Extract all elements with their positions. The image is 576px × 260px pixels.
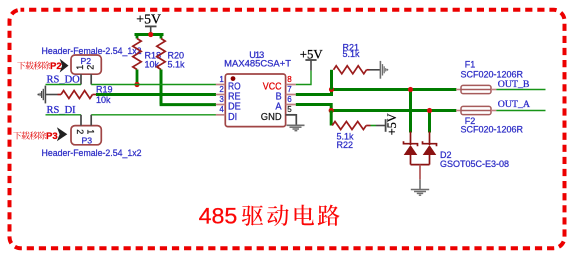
- svg-text:GSOT05C-E3-08: GSOT05C-E3-08: [440, 159, 509, 169]
- svg-text:5: 5: [287, 105, 292, 114]
- U13 pin 3 (DE): [216, 95, 241, 113]
- resistor R20 5.1k: [157, 35, 165, 105]
- IC U13 body: [225, 74, 285, 127]
- power +5V (at U13.8): [300, 47, 324, 70]
- wire RS_DI stub: [46, 114, 82, 116]
- wire R20 to DE (pin3): [160, 103, 216, 106]
- wire DI net (P3.1 to U13.4): [91, 114, 216, 116]
- svg-text:SCF020-1206R: SCF020-1206R: [461, 70, 524, 80]
- resistor R18 10k: [133, 35, 141, 85]
- ground (below D2): [411, 180, 429, 196]
- R19 value labels: [96, 85, 113, 106]
- wire RS_DO stub: [46, 84, 82, 86]
- title 485驱动电路 (red): [199, 203, 340, 228]
- junction B/R21: [329, 87, 334, 92]
- R22 value labels: [337, 131, 355, 150]
- svg-text:OUT_B: OUT_B: [498, 79, 530, 90]
- wire B main line to F1: [332, 88, 457, 91]
- svg-text:DI: DI: [228, 112, 237, 123]
- U13 pin 5 (GND): [261, 105, 296, 123]
- junction A/D2: [427, 108, 432, 113]
- power +5V (top, above R18/R20): [136, 11, 161, 34]
- svg-text:8: 8: [287, 75, 292, 84]
- R18 value labels: [145, 51, 162, 70]
- P2 pin 2 lead: [90, 74, 92, 84]
- U13 pin-1 marker dot: [231, 76, 236, 81]
- svg-text:2: 2: [219, 85, 224, 94]
- arrow marker at P3: [57, 127, 67, 141]
- svg-text:5.1k: 5.1k: [168, 60, 186, 70]
- U13 pin 1 (RO): [216, 75, 241, 93]
- svg-text:Header-Female-2.54_1x2: Header-Female-2.54_1x2: [42, 148, 142, 158]
- P2 pin 1 lead: [80, 74, 82, 84]
- svg-text:P3: P3: [46, 131, 58, 142]
- svg-text:GND: GND: [261, 112, 282, 123]
- wire RO net (P2.2 to U13.1): [91, 84, 216, 86]
- resistor R22 5.1k: [331, 111, 370, 130]
- F2 designator labels: [461, 116, 524, 135]
- svg-text:3: 3: [219, 95, 224, 104]
- svg-text:10k: 10k: [96, 95, 111, 105]
- svg-text:P3: P3: [82, 136, 93, 146]
- U13 pin 2 (RE): [216, 85, 241, 103]
- ground (right of R21, rotated): [370, 61, 389, 79]
- wire A to D2 anode-right: [428, 111, 431, 133]
- wire +5V rail to R18/R20 tops: [135, 33, 164, 36]
- P3 pin 1 lead: [90, 115, 92, 126]
- svg-text:+5V: +5V: [300, 47, 324, 61]
- junction R18/RO wire: [134, 82, 139, 87]
- svg-text:1: 1: [86, 129, 96, 134]
- svg-text:SCF020-1206R: SCF020-1206R: [461, 125, 524, 135]
- diode D2 (dual TVS GSOT05C): [404, 132, 437, 180]
- fuse F1 SCF020-1206R: [456, 85, 496, 93]
- R21 value labels: [343, 43, 361, 60]
- resistor R21 5.1k: [332, 66, 370, 90]
- ground (U13.5): [287, 125, 305, 130]
- svg-text:R22: R22: [337, 140, 354, 150]
- svg-text:F1: F1: [465, 60, 476, 70]
- svg-text:MAX485CSA+T: MAX485CSA+T: [224, 58, 291, 68]
- wire B to D2 anode-left: [409, 90, 412, 133]
- U13 pin 4 (DI): [216, 105, 237, 123]
- svg-text:P2: P2: [50, 61, 62, 72]
- wire B net: U13.7 jog up to main line: [296, 90, 332, 95]
- svg-text:5.1k: 5.1k: [343, 49, 361, 59]
- svg-text:1: 1: [75, 65, 85, 70]
- wire U13.8 to +5V: [296, 71, 311, 85]
- fuse F2 SCF020-1206R: [456, 106, 496, 114]
- svg-text:+5V: +5V: [385, 113, 399, 135]
- wire OUT_A: [496, 110, 545, 112]
- D2 designator labels: [440, 150, 509, 169]
- wire R22 to +5V: [371, 125, 377, 127]
- junction B/D2: [408, 87, 413, 92]
- connector P3 body: [71, 126, 101, 145]
- svg-text:RS_DO: RS_DO: [47, 74, 81, 85]
- svg-text:2: 2: [86, 65, 96, 70]
- annotation 下载移除P3 (red): [13, 131, 57, 142]
- P3 pin 2 lead: [80, 115, 82, 126]
- svg-text:485: 485: [199, 203, 238, 228]
- U13 pin 6 (A): [275, 95, 295, 113]
- wire U13.5 to ground: [286, 115, 296, 125]
- U13 pin 7 (B): [276, 85, 296, 103]
- svg-text:4: 4: [219, 105, 224, 114]
- connector P2 body: [71, 55, 101, 74]
- svg-text:1: 1: [219, 75, 224, 84]
- svg-text:6: 6: [287, 95, 292, 104]
- R20 value labels: [168, 51, 186, 70]
- junction A/R22: [329, 108, 334, 113]
- wire OUT_B: [496, 89, 545, 91]
- svg-text:OUT_A: OUT_A: [498, 99, 531, 110]
- ground (left of R19): [37, 86, 57, 104]
- power +5V (right of R22, rotated): [376, 113, 399, 135]
- svg-text:7: 7: [287, 85, 292, 94]
- wire A main line to F2: [331, 109, 456, 112]
- arrow marker at P2: [60, 59, 69, 73]
- wire A net: U13.6 jog down to main line: [296, 105, 331, 111]
- wire RE net (R19 to U13.2): [96, 93, 216, 96]
- svg-text:P2: P2: [81, 56, 92, 66]
- svg-text:2: 2: [75, 129, 85, 134]
- svg-text:+5V: +5V: [136, 11, 161, 26]
- F1 designator labels: [461, 60, 524, 80]
- resistor R19 10k: [58, 91, 97, 99]
- annotation 下载移除P2 (red): [17, 61, 61, 72]
- junction on +5V rail: [148, 32, 153, 37]
- U13 pin 8 (VCC): [263, 75, 296, 93]
